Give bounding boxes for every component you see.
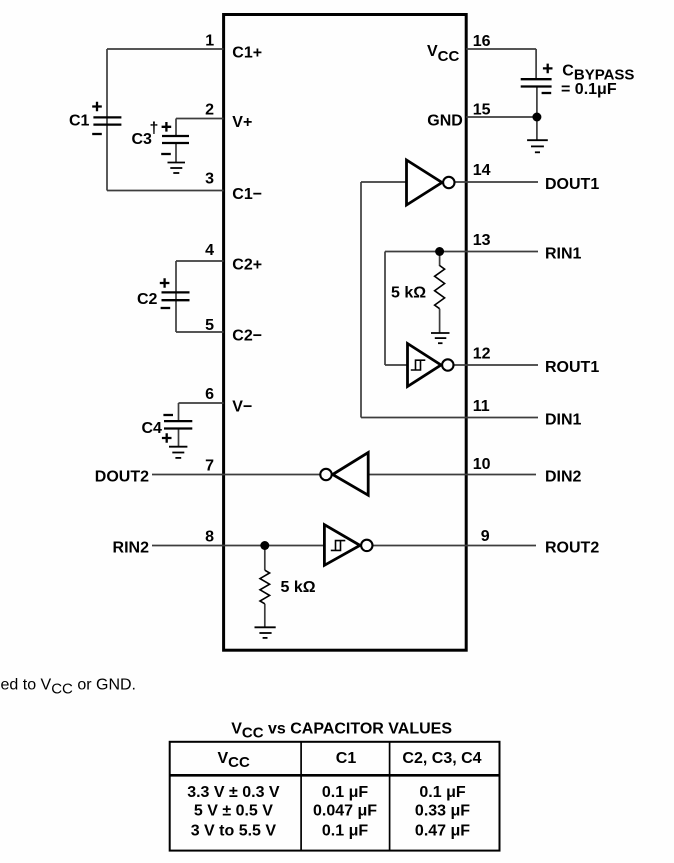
svg-text:1: 1: [205, 33, 214, 50]
svg-text:ROUT1: ROUT1: [545, 359, 599, 376]
svg-text:0.33 μF: 0.33 μF: [415, 803, 470, 820]
svg-text:6: 6: [205, 386, 214, 403]
resistor R1 5k zigzag: [435, 266, 445, 309]
wire RIN1 feedback vertical: [384, 252, 386, 366]
receiver U1D triangle pin9: [324, 525, 360, 566]
resistor R2 5k zigzag: [260, 570, 270, 604]
C3 plus sign: [162, 122, 172, 132]
capacitor C2: [162, 292, 190, 300]
wire pin7 DOUT2: [152, 474, 321, 476]
svg-text:0.1 μF: 0.1 μF: [322, 822, 368, 839]
wire pin16 VCC stub: [466, 48, 536, 50]
junction dot pin15 GND node: [532, 113, 541, 122]
svg-text:DIN1: DIN1: [545, 412, 582, 429]
svg-text:V+: V+: [232, 114, 252, 131]
ground below R2: [255, 627, 276, 638]
svg-text:C1: C1: [69, 113, 90, 130]
junction dot RIN2 node: [260, 541, 269, 550]
C1 plus sign: [92, 102, 102, 112]
svg-text:C2+: C2+: [232, 257, 262, 274]
ground below R1: [431, 333, 450, 343]
wire pin12 ROUT1: [449, 364, 538, 366]
svg-text:8: 8: [205, 529, 214, 546]
svg-text:3 V to 5.5 V: 3 V to 5.5 V: [191, 822, 277, 839]
svg-text:11: 11: [473, 398, 490, 415]
receiver U1D hysteresis symbol: [331, 541, 346, 551]
svg-text:9: 9: [481, 528, 490, 545]
receiver U1B triangle pin12: [408, 344, 442, 387]
svg-text:5 V ± 0.5 V: 5 V ± 0.5 V: [194, 803, 273, 820]
CBYPASS minus sign: [542, 92, 552, 94]
svg-text:C1: C1: [336, 750, 357, 767]
driver U1A triangle pin14: [407, 160, 443, 205]
svg-text:10: 10: [473, 456, 491, 473]
svg-text:DOUT1: DOUT1: [545, 176, 599, 193]
table header separator: [170, 774, 500, 777]
C2 minus sign: [161, 307, 171, 309]
table column line 1: [300, 742, 302, 851]
svg-text:7: 7: [205, 458, 214, 475]
wire C1 branch vertical: [106, 49, 108, 191]
wire C3 bottom stub: [175, 143, 177, 163]
driver U1A bubble: [443, 177, 454, 188]
driver U1C bubble: [320, 469, 331, 480]
svg-text:4: 4: [205, 242, 214, 259]
wire pin4 C2+ horizontal: [176, 260, 224, 262]
ground below C4: [169, 447, 187, 458]
C4 plus sign: [162, 433, 172, 443]
wire resistor R2 bottom stub: [264, 604, 266, 628]
wire CBYPASS top vertical: [535, 49, 537, 79]
driver U1C triangle pin7: [333, 453, 369, 496]
wire resistor R2 top stub: [264, 546, 266, 571]
C2 plus sign: [160, 278, 170, 288]
svg-text:ROUT2: ROUT2: [545, 540, 599, 557]
wire receiver1 input: [385, 364, 408, 366]
svg-text:V−: V−: [232, 399, 252, 416]
C4 minus sign: [163, 414, 173, 416]
ground below CBYPASS: [527, 140, 548, 152]
wire pin11 DIN1: [361, 417, 538, 419]
svg-text:= 0.1μF: = 0.1μF: [561, 81, 617, 98]
wire pin13 RIN1: [385, 251, 538, 253]
svg-text:C4: C4: [142, 420, 163, 437]
capacitor C4: [164, 421, 192, 428]
receiver U1B hysteresis symbol: [411, 360, 426, 370]
ground below C3: [168, 163, 186, 174]
wire resistor R1 top stub: [439, 252, 441, 267]
svg-text:15: 15: [473, 102, 491, 119]
svg-text:0.1 μF: 0.1 μF: [322, 784, 368, 801]
wire DIN1 feedback vertical: [360, 182, 362, 418]
svg-text:0.047 μF: 0.047 μF: [313, 803, 377, 820]
svg-text:C1+: C1+: [232, 45, 262, 62]
svg-text:3: 3: [205, 171, 214, 188]
svg-text:C2, C3, C4: C2, C3, C4: [402, 750, 481, 767]
C1 minus sign: [92, 133, 102, 135]
svg-text:12: 12: [473, 346, 491, 363]
wire C4 bottom stub: [178, 429, 180, 447]
svg-text:C2−: C2−: [232, 328, 262, 345]
wire C2 branch vertical: [175, 261, 177, 332]
svg-text:5: 5: [205, 317, 214, 334]
wire pin14 DOUT1: [449, 181, 538, 183]
svg-text:RIN1: RIN1: [545, 246, 582, 263]
svg-text:C1−: C1−: [232, 186, 262, 203]
wire pin9 ROUT2: [373, 545, 537, 547]
capacitor CBYPASS: [521, 79, 552, 86]
svg-text:5 kΩ: 5 kΩ: [281, 579, 316, 596]
table column line 2: [389, 742, 391, 851]
svg-text:C3: C3: [132, 131, 153, 148]
svg-text:C2: C2: [137, 291, 158, 308]
capacitor C1: [93, 117, 121, 124]
wire C3 top stub: [175, 119, 177, 137]
wire resistor R1 bottom stub: [439, 309, 441, 333]
svg-text:DIN2: DIN2: [545, 469, 582, 486]
svg-text:14: 14: [473, 162, 491, 179]
wire pin3 C1- horizontal: [107, 190, 224, 192]
svg-text:GND: GND: [427, 112, 463, 129]
C3 minus sign: [161, 153, 171, 155]
svg-text:13: 13: [473, 232, 491, 249]
wire driver1 input: [361, 181, 407, 183]
svg-text:5 kΩ: 5 kΩ: [391, 284, 426, 301]
junction dot RIN1 node: [435, 247, 444, 256]
wire pin8 RIN2: [152, 545, 324, 547]
wire pin2 V+ horizontal: [176, 118, 224, 120]
svg-text:0.47 μF: 0.47 μF: [415, 822, 470, 839]
wire C4 top stub: [178, 403, 180, 421]
receiver U1B bubble: [442, 359, 453, 370]
wire CBYPASS bottom vertical: [536, 87, 538, 141]
table outer border: [170, 742, 500, 851]
wire pin15 GND stub: [466, 116, 537, 118]
svg-text:2: 2: [205, 101, 214, 118]
wire pin5 C2- horizontal: [176, 331, 224, 333]
svg-text:DOUT2: DOUT2: [95, 469, 149, 486]
wire pin6 V- horizontal: [179, 402, 224, 404]
wire pin1 C1+ horizontal: [107, 48, 224, 50]
CBYPASS plus sign: [543, 64, 553, 74]
receiver U1D bubble: [361, 540, 372, 551]
svg-text:3.3 V ± 0.3 V: 3.3 V ± 0.3 V: [187, 784, 280, 801]
capacitor C3: [162, 136, 189, 143]
svg-text:0.1 μF: 0.1 μF: [419, 784, 465, 801]
wire pin10 DIN2: [368, 474, 536, 476]
svg-text:RIN2: RIN2: [113, 540, 150, 557]
IC U1 body: [224, 15, 467, 651]
svg-text:16: 16: [473, 33, 491, 50]
